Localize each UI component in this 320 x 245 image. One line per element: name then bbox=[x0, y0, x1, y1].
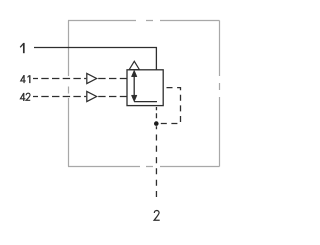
junction dot bbox=[154, 121, 159, 126]
wire: dashed feedback path from box right side bbox=[159, 88, 181, 124]
node label 41 bbox=[21, 75, 30, 83]
wire: dashed line from box bottom to junction bbox=[155, 107, 157, 118]
wire: dashed pilot line 41 bbox=[33, 78, 86, 80]
wire: dashed pilot line 41 to box bbox=[98, 78, 127, 80]
wire: dashed pilot line 42 bbox=[33, 96, 86, 98]
interior baseline from arrow to drain point bbox=[134, 101, 157, 103]
vent triangle on box top bbox=[129, 61, 139, 69]
double-headed arrow inside box bbox=[131, 70, 137, 102]
wire: port 1 to valve box bbox=[34, 48, 156, 70]
triangle arrow 41 bbox=[87, 73, 97, 83]
wire: dashed line from junction to port 2 bbox=[155, 126, 157, 197]
wire: dashed pilot line 42 to box bbox=[98, 96, 127, 98]
valve box bbox=[127, 70, 163, 106]
triangle arrow 42 bbox=[87, 91, 97, 101]
enclosure boundary (phantom/chain line rectangle) bbox=[68, 21, 220, 167]
node label 42 bbox=[20, 93, 30, 101]
node label 2 bbox=[154, 210, 160, 220]
node label 1 bbox=[20, 43, 24, 53]
